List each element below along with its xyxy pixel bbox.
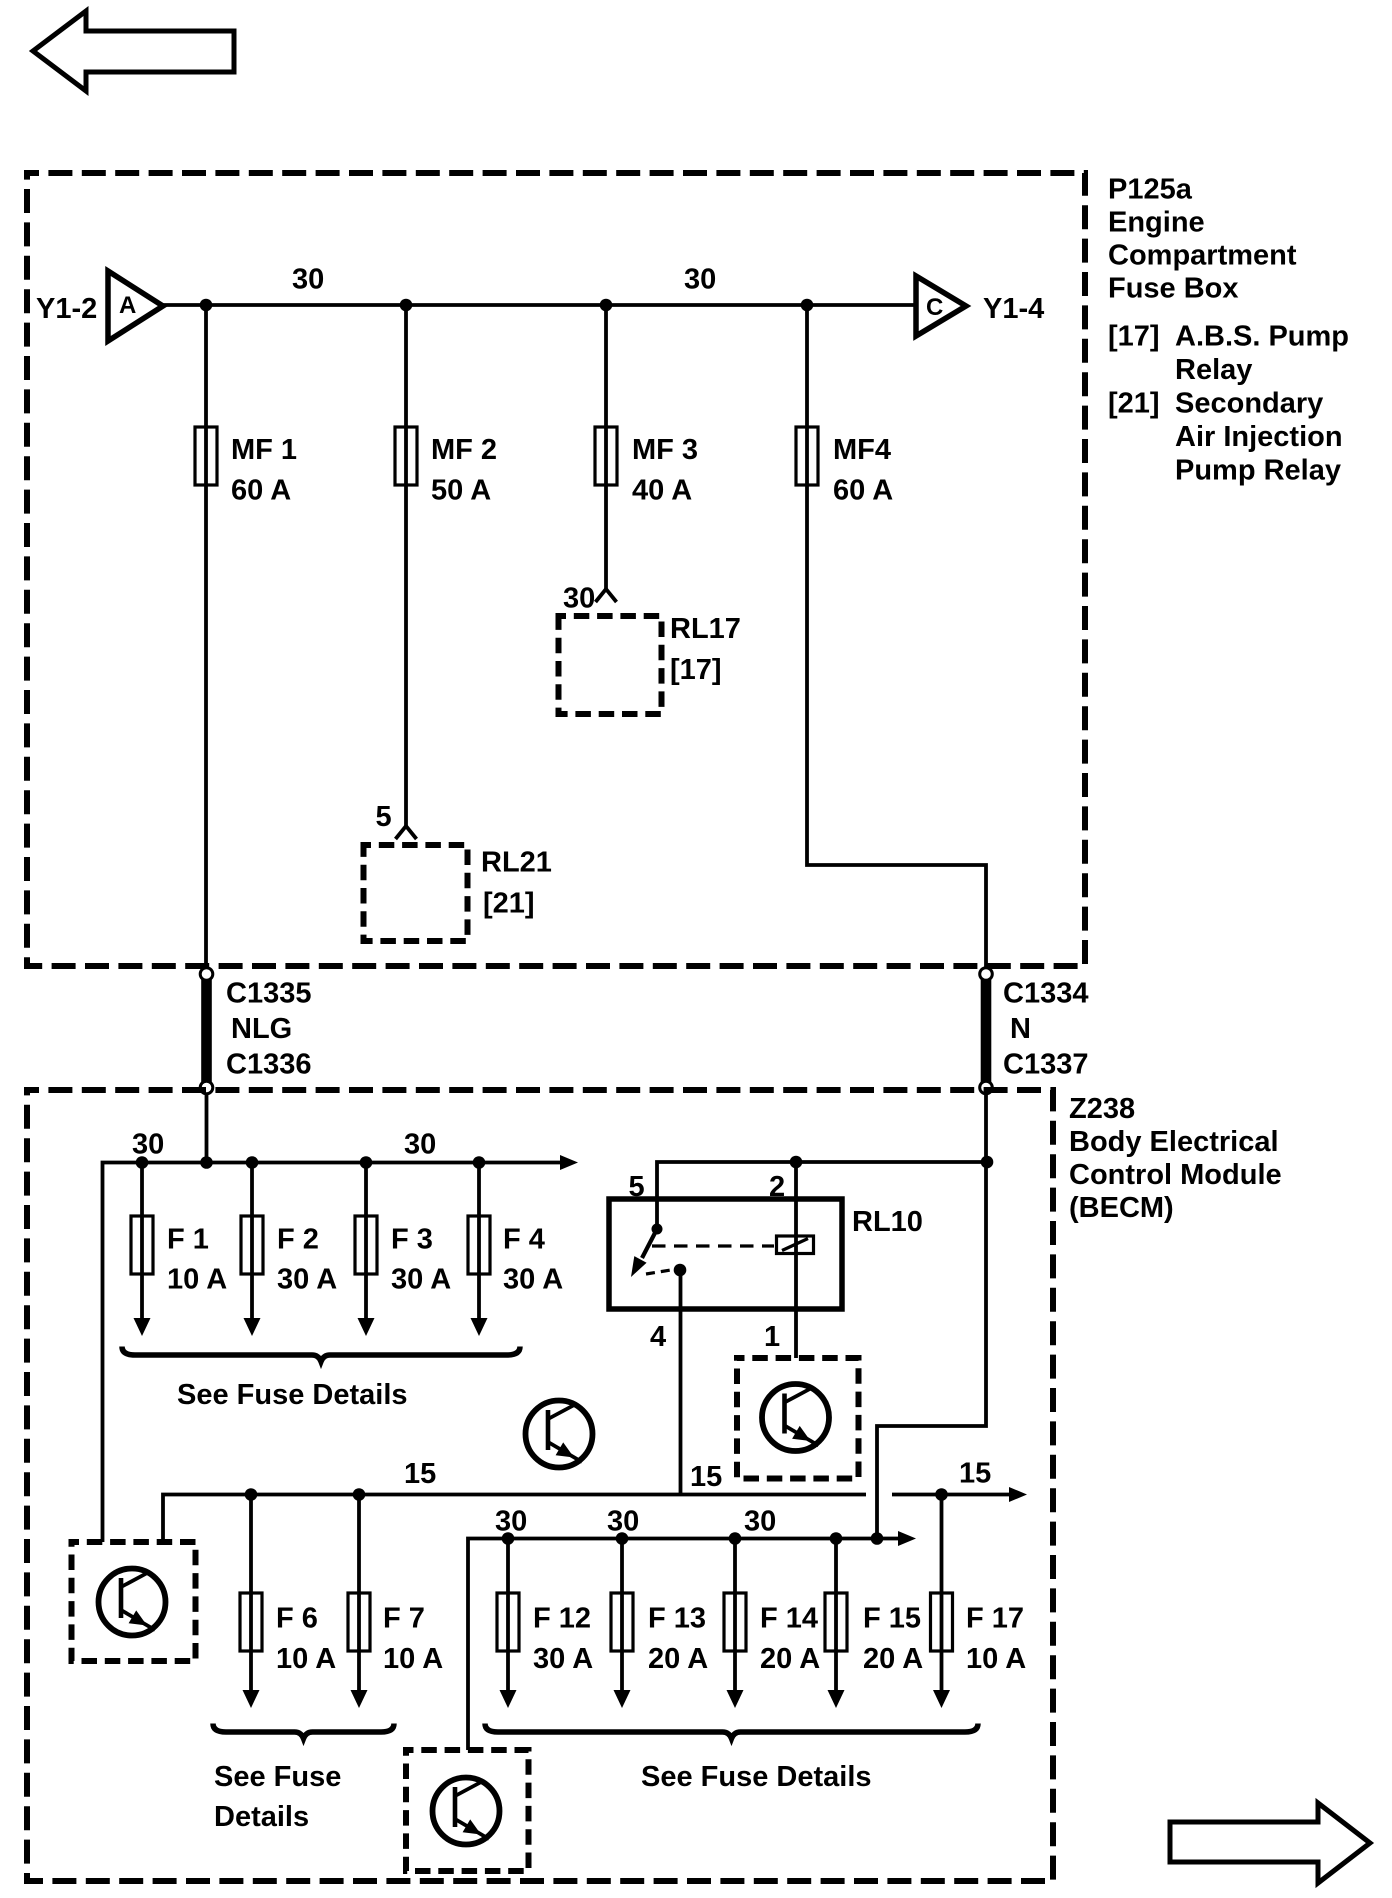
relay RL10 coil: [777, 1236, 814, 1254]
svg-text:Z238: Z238: [1069, 1093, 1135, 1125]
svg-text:15: 15: [404, 1458, 436, 1490]
svg-text:F 17: F 17: [966, 1603, 1024, 1635]
svg-text:Secondary: Secondary: [1175, 388, 1323, 420]
svg-text:MF 1: MF 1: [231, 434, 297, 466]
svg-text:C1334: C1334: [1003, 978, 1088, 1010]
svg-text:F 15: F 15: [863, 1603, 921, 1635]
svg-text:30: 30: [744, 1506, 776, 1538]
node junction F13: [616, 1532, 629, 1545]
svg-text:Control Module: Control Module: [1069, 1159, 1282, 1191]
svg-text:F 13: F 13: [648, 1603, 706, 1635]
svg-text:F 3: F 3: [391, 1224, 433, 1256]
fuse MF 1 60 A: [195, 427, 297, 507]
svg-text:30: 30: [563, 583, 595, 615]
svg-text:60 A: 60 A: [833, 475, 893, 507]
label pin 1: [764, 1321, 780, 1353]
svg-text:RL21: RL21: [481, 847, 552, 879]
fuse F 4 30 A: [468, 1163, 563, 1337]
fuse MF 3 40 A: [595, 427, 698, 507]
fuse MF4 60 A: [796, 427, 893, 507]
wire pin 4 to 15 bus: [679, 1270, 683, 1495]
svg-text:[21]: [21]: [483, 888, 535, 920]
svg-text:5: 5: [376, 801, 392, 833]
svg-text:Engine: Engine: [1108, 207, 1205, 239]
wire C1336 to 30 bus: [205, 1094, 209, 1163]
svg-text:30: 30: [404, 1129, 436, 1161]
node junction C1337 elbow on 30 bus: [871, 1532, 884, 1545]
svg-text:2: 2: [769, 1171, 785, 1203]
transistor driver (RL10 pin 1) dashed box: [737, 1358, 859, 1479]
svg-text:MF 3: MF 3: [632, 434, 698, 466]
label 30 (lower bus 1): [495, 1506, 527, 1538]
svg-text:MF 2: MF 2: [431, 434, 497, 466]
relay RL10 coil dashed link: [652, 1244, 774, 1247]
svg-text:15: 15: [959, 1458, 991, 1490]
svg-text:1: 1: [764, 1321, 780, 1353]
fuse F 2 30 A: [241, 1163, 337, 1337]
fuse box P125a dashed boundary: [27, 173, 1085, 966]
svg-text:10 A: 10 A: [276, 1643, 336, 1675]
svg-text:See Fuse Details: See Fuse Details: [177, 1379, 408, 1411]
wire 30 bus (BECM upper): [103, 1155, 579, 1542]
pin 30 chevron to RL17: [563, 583, 617, 615]
svg-text:N: N: [1010, 1013, 1031, 1045]
relay RL17 dashed box: [559, 613, 741, 714]
transistor symbol (RL10 pin 1): [762, 1384, 829, 1451]
label Z238 Body Electrical Control Module (BECM): [1069, 1093, 1282, 1224]
label 30 (right): [684, 264, 716, 296]
node junction F17: [935, 1488, 948, 1501]
label 15 (bus): [404, 1458, 436, 1490]
relay RL10 box: [609, 1199, 923, 1309]
svg-text:4: 4: [650, 1321, 666, 1353]
transistor feed dashed box (bottom): [406, 1750, 529, 1871]
svg-text:30 A: 30 A: [533, 1643, 593, 1675]
svg-text:Pump Relay: Pump Relay: [1175, 455, 1341, 487]
svg-text:RL10: RL10: [852, 1206, 923, 1238]
node junction F3: [360, 1156, 373, 1169]
svg-text:40 A: 40 A: [632, 475, 692, 507]
svg-text:60 A: 60 A: [231, 475, 291, 507]
svg-text:Body Electrical: Body Electrical: [1069, 1126, 1279, 1158]
fuse F 17 10 A: [931, 1495, 1027, 1709]
BECM Z238 dashed boundary: [27, 1090, 1053, 1881]
svg-text:10 A: 10 A: [966, 1643, 1026, 1675]
brace F1-F4 see fuse details: [122, 1347, 520, 1412]
node junction F1: [136, 1156, 149, 1169]
svg-text:50 A: 50 A: [431, 475, 491, 507]
fuse F 13 20 A: [611, 1539, 708, 1709]
fuse F 7 10 A: [348, 1495, 443, 1709]
svg-text:C1336: C1336: [226, 1049, 311, 1081]
svg-text:Relay: Relay: [1175, 354, 1252, 386]
node junction MF3: [600, 299, 613, 312]
label [21] Secondary Air Injection Pump Relay: [1108, 388, 1343, 487]
wire MF4 branch: [807, 305, 986, 968]
fuse F 14 20 A: [724, 1539, 820, 1709]
svg-text:A.B.S. Pump: A.B.S. Pump: [1175, 321, 1349, 353]
svg-text:Y1-4: Y1-4: [983, 293, 1044, 325]
brace F6-F7 see fuse details: [213, 1724, 394, 1834]
connector Y1-4 (triangle C): [916, 276, 1044, 336]
wire MF2 branch: [404, 305, 408, 826]
navigation arrow (page link, bottom-right): [1170, 1803, 1370, 1883]
label 15 (right stub): [959, 1458, 991, 1490]
wire pin 2 through coil: [794, 1162, 798, 1358]
svg-text:See Fuse: See Fuse: [214, 1761, 341, 1793]
node junction F2: [246, 1156, 259, 1169]
fuse F 12 30 A: [497, 1539, 593, 1709]
wire 15 bus (right stub): [892, 1487, 1027, 1502]
transistor symbol (left): [99, 1569, 166, 1636]
svg-text:F 2: F 2: [277, 1224, 319, 1256]
svg-text:Compartment: Compartment: [1108, 240, 1297, 272]
node junction F6: [245, 1488, 258, 1501]
node junction C1337 wire: [981, 1156, 994, 1169]
label [17] A.B.S. Pump Relay: [1108, 321, 1349, 387]
label 30 (left): [292, 264, 324, 296]
svg-text:[17]: [17]: [670, 654, 722, 686]
svg-text:C1337: C1337: [1003, 1049, 1088, 1081]
wire 15 bus: [163, 1495, 866, 1543]
svg-text:30 A: 30 A: [277, 1264, 337, 1296]
wire C1337 down, elbow to 30 bus arrow: [877, 1094, 986, 1539]
relay RL10 contact dashed throw: [646, 1270, 671, 1274]
fuse F 6 10 A: [240, 1495, 336, 1709]
node junction F12: [502, 1532, 515, 1545]
svg-text:[17]: [17]: [1108, 321, 1160, 353]
relay RL10 contact pin 4: [674, 1264, 687, 1277]
label 30 (bus left): [132, 1129, 164, 1161]
svg-text:See Fuse Details: See Fuse Details: [641, 1761, 872, 1793]
svg-text:Air Injection: Air Injection: [1175, 421, 1343, 453]
fuse MF 2 50 A: [395, 427, 497, 507]
svg-text:20 A: 20 A: [760, 1643, 820, 1675]
svg-text:F 14: F 14: [760, 1603, 818, 1635]
label pin 4: [650, 1321, 666, 1353]
svg-text:RL17: RL17: [670, 613, 741, 645]
node junction F7: [353, 1488, 366, 1501]
svg-text:10 A: 10 A: [383, 1643, 443, 1675]
label 30 (lower bus 2): [607, 1506, 639, 1538]
node junction F4: [473, 1156, 486, 1169]
svg-text:F 12: F 12: [533, 1603, 591, 1635]
label 30 (lower bus 3): [744, 1506, 776, 1538]
svg-text:30 A: 30 A: [391, 1264, 451, 1296]
connector C1334/N/C1337: [980, 968, 1089, 1094]
pin 5 chevron to RL21: [376, 801, 417, 839]
node junction F14: [729, 1532, 742, 1545]
label P125a Engine Compartment Fuse Box: [1108, 174, 1297, 305]
svg-text:(BECM): (BECM): [1069, 1192, 1174, 1224]
svg-text:[21]: [21]: [1108, 388, 1160, 420]
fuse F 15 20 A: [825, 1539, 923, 1709]
svg-text:10 A: 10 A: [167, 1264, 227, 1296]
relay RL21 dashed box: [364, 845, 552, 941]
svg-text:MF4: MF4: [833, 434, 891, 466]
transistor symbol (bottom): [433, 1778, 500, 1845]
svg-text:C: C: [926, 294, 943, 321]
svg-text:30: 30: [495, 1506, 527, 1538]
node junction MF4: [801, 299, 814, 312]
svg-text:F 1: F 1: [167, 1224, 209, 1256]
wire RL10 pin5/pin2 feed: [657, 1162, 987, 1229]
svg-text:30: 30: [292, 264, 324, 296]
wire 30 bus (top): [163, 303, 916, 307]
wire 30 bus (BECM lower): [468, 1531, 916, 1750]
label 15 (pin 4 bus): [690, 1461, 722, 1493]
label 30 (bus mid): [404, 1129, 436, 1161]
svg-text:C1335: C1335: [226, 978, 311, 1010]
svg-text:30: 30: [132, 1129, 164, 1161]
label pin 5: [629, 1171, 645, 1203]
wire MF1 branch: [204, 305, 208, 968]
svg-text:F 4: F 4: [503, 1224, 545, 1256]
node junction C1336 wire: [200, 1156, 213, 1169]
svg-text:Y1-2: Y1-2: [36, 293, 97, 325]
connector Y1-2 (triangle A): [36, 271, 163, 341]
fuse F 3 30 A: [355, 1163, 451, 1337]
svg-text:Fuse Box: Fuse Box: [1108, 273, 1239, 305]
node junction pin2 feed: [790, 1156, 803, 1169]
svg-text:5: 5: [629, 1171, 645, 1203]
brace F12-F17 see fuse details: [485, 1724, 978, 1794]
svg-text:20 A: 20 A: [863, 1643, 923, 1675]
connector C1335/NLG/C1336: [200, 968, 311, 1094]
svg-text:F 7: F 7: [383, 1603, 425, 1635]
transistor feed dashed box (left): [72, 1542, 196, 1661]
svg-text:F 6: F 6: [276, 1603, 318, 1635]
svg-text:NLG: NLG: [231, 1013, 292, 1045]
node junction F15: [830, 1532, 843, 1545]
svg-text:30 A: 30 A: [503, 1264, 563, 1296]
node junction MF2: [400, 299, 413, 312]
svg-text:15: 15: [690, 1461, 722, 1493]
svg-text:20 A: 20 A: [648, 1643, 708, 1675]
navigation arrow (page link, top-left): [33, 11, 234, 91]
svg-text:P125a: P125a: [1108, 174, 1193, 206]
wire MF3 branch: [604, 305, 608, 589]
relay RL10 common contact: [631, 1224, 663, 1278]
label pin 2: [769, 1171, 785, 1203]
node junction MF1: [200, 299, 213, 312]
transistor symbol (centre, ignition logic): [526, 1401, 593, 1468]
svg-text:A: A: [119, 292, 136, 319]
svg-text:30: 30: [684, 264, 716, 296]
svg-text:Details: Details: [214, 1801, 309, 1833]
fuse F 1 10 A: [131, 1163, 227, 1337]
